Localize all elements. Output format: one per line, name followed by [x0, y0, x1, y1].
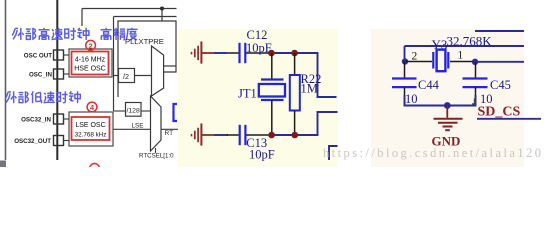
- wire RTC out: [161, 128, 179, 130]
- pin C12 left: [227, 52, 239, 54]
- divider /2 box: [119, 69, 135, 83]
- wire top h1: [82, 8, 177, 10]
- svg-text:10pF: 10pF: [246, 41, 272, 55]
- pin OSC_OUT: [54, 50, 64, 60]
- HSE OSC outer box: [69, 49, 112, 77]
- wire mux select: [155, 148, 157, 153]
- fragment corner: [472, 99, 475, 105]
- divider /128 box: [126, 103, 142, 117]
- svg-text:LSE: LSE: [132, 123, 144, 130]
- svg-text:10: 10: [405, 92, 418, 106]
- svg-text:OSC_IN: OSC_IN: [29, 72, 53, 79]
- wire to C12: [214, 52, 227, 54]
- wire crystal bottom: [271, 100, 273, 135]
- svg-text:2: 2: [412, 51, 418, 63]
- left border line: [5, 0, 7, 160]
- svg-text:OSC OUT: OSC OUT: [24, 53, 52, 60]
- wire net B: [405, 45, 525, 47]
- wire R22 top: [294, 53, 296, 75]
- schematic background: [371, 29, 524, 167]
- wire corner left: [404, 46, 406, 62]
- svg-text:C44: C44: [418, 78, 440, 92]
- pin OSC32_IN: [54, 114, 64, 124]
- wire crystal top: [271, 53, 273, 80]
- wire fragment bottom right: [329, 146, 338, 160]
- annotation circle 2: [86, 40, 96, 50]
- text 外部高速时钟: [12, 28, 89, 40]
- bottom-left gray block: [0, 161, 6, 168]
- pin C13 left: [227, 134, 239, 136]
- pin OSC_IN: [54, 69, 64, 79]
- wire bottom rail: [405, 95, 476, 106]
- pin 1: [450, 61, 474, 63]
- svg-text:SD_CS: SD_CS: [478, 105, 521, 120]
- wire top v1: [81, 9, 83, 27]
- svg-text:LSE OSC: LSE OSC: [75, 122, 105, 129]
- annotation circle 4: [87, 102, 97, 112]
- junction dot: [292, 132, 299, 139]
- svg-text:RT: RT: [165, 130, 174, 137]
- wire LSE to mux: [113, 128, 151, 130]
- junction dot: [472, 59, 478, 65]
- wire /2 to mux: [135, 75, 152, 77]
- pin 2: [406, 61, 432, 63]
- wire SD_CS: [477, 118, 541, 120]
- svg-text:32.768K: 32.768K: [447, 34, 493, 49]
- junction dot: [444, 102, 451, 109]
- capacitor C13: [239, 125, 241, 145]
- ground GND: [434, 106, 463, 131]
- text 高精度: [101, 28, 138, 40]
- pin C12 right: [246, 52, 270, 54]
- svg-text:4-16 MHz: 4-16 MHz: [75, 57, 106, 64]
- svg-text:/128: /128: [127, 108, 140, 115]
- blue bracket annotation: [174, 104, 178, 121]
- HSE OSC red highlight box: [72, 52, 109, 75]
- resistor R22: [290, 75, 300, 111]
- annotation circle 5 partial: [90, 164, 100, 174]
- crystal Y3: [432, 52, 434, 69]
- wire /128 to mux: [141, 110, 151, 112]
- svg-text:10pF: 10pF: [249, 148, 275, 162]
- svg-text:HSE OSC: HSE OSC: [74, 66, 106, 73]
- svg-text:/2: /2: [123, 72, 129, 81]
- pin C44 top: [404, 62, 406, 79]
- pin C45 top: [475, 62, 477, 79]
- ground GND1 (rotated bars): [192, 42, 215, 64]
- LSE OSC outer box: [69, 112, 113, 146]
- junction dot: [402, 58, 408, 64]
- wire v to PLLXTPRE: [161, 9, 163, 22]
- svg-text:OSC32_OUT: OSC32_OUT: [14, 138, 51, 145]
- crystal JT1: [261, 78, 284, 80]
- svg-text:C45: C45: [490, 78, 511, 92]
- wire to C13: [214, 134, 228, 136]
- capacitor C44: [392, 77, 417, 79]
- schematic background: [178, 29, 338, 167]
- PLLXTPRE box: [118, 21, 176, 97]
- wire net A: [475, 30, 524, 32]
- pin C45 bottom: [475, 87, 477, 105]
- wire net C: [475, 61, 524, 63]
- capacitor C12: [238, 43, 240, 63]
- junction dot: [268, 50, 275, 57]
- svg-text:C12: C12: [247, 28, 268, 42]
- svg-text:1M: 1M: [301, 82, 318, 96]
- svg-text:32.768 kHz: 32.768 kHz: [75, 132, 107, 139]
- LSE OSC red highlight box: [72, 117, 110, 140]
- pin OSC32_OUT: [54, 136, 64, 146]
- pin C44 bottom: [404, 87, 406, 105]
- wire R22 bottom: [294, 111, 296, 136]
- svg-text:2: 2: [89, 41, 93, 50]
- wire mux out: [164, 65, 176, 67]
- junction dot: [268, 132, 275, 139]
- wire to /2: [114, 75, 119, 77]
- wire bottom rail: [269, 112, 338, 135]
- svg-text:OSC32_IN: OSC32_IN: [21, 117, 51, 124]
- wire top h2: [114, 16, 177, 18]
- svg-text:RTCSEL[1:0: RTCSEL[1:0: [139, 153, 174, 160]
- mux PLLXTPRE: [152, 46, 164, 96]
- chip boundary line: [56, 0, 58, 160]
- text 外部低速时钟: [5, 91, 80, 103]
- node junction dot: [160, 7, 164, 11]
- svg-text:PLLXTPRE: PLLXTPRE: [125, 37, 164, 46]
- wire top rail: [269, 53, 337, 97]
- pin C13 right: [246, 134, 270, 136]
- ground GND2 (rotated bars): [192, 124, 215, 146]
- svg-text:1: 1: [458, 50, 464, 62]
- junction dot: [291, 50, 298, 57]
- mux RTCSEL: [151, 96, 162, 151]
- wire v feed divider: [113, 17, 115, 112]
- svg-text:JT1: JT1: [238, 87, 257, 101]
- wire v to /128: [114, 110, 126, 112]
- capacitor C45: [463, 77, 488, 79]
